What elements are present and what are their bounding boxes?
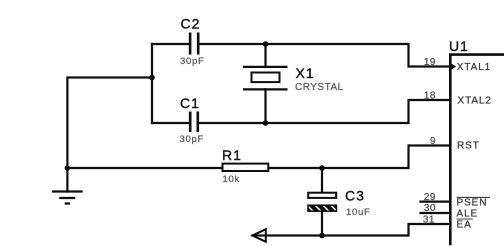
svg-text:XTAL1: XTAL1: [457, 62, 491, 73]
svg-text:19: 19: [424, 57, 436, 68]
svg-text:U1: U1: [449, 38, 469, 54]
svg-text:XTAL2: XTAL2: [458, 96, 492, 107]
svg-text:C2: C2: [181, 16, 201, 32]
svg-text:EA: EA: [457, 219, 472, 230]
svg-text:C3: C3: [345, 188, 365, 204]
svg-text:9: 9: [430, 136, 436, 147]
svg-text:ALE: ALE: [457, 208, 479, 219]
svg-text:30pF: 30pF: [180, 134, 204, 145]
svg-text:10uF: 10uF: [346, 207, 370, 218]
svg-text:31: 31: [423, 214, 435, 225]
svg-text:30pF: 30pF: [180, 56, 204, 67]
svg-text:RST: RST: [457, 141, 480, 152]
svg-text:X1: X1: [296, 65, 315, 81]
svg-text:R1: R1: [222, 147, 242, 163]
svg-text:C1: C1: [180, 95, 200, 111]
svg-text:29: 29: [424, 192, 436, 203]
svg-text:18: 18: [424, 90, 436, 101]
svg-text:CRYSTAL: CRYSTAL: [295, 82, 344, 93]
svg-text:10k: 10k: [223, 174, 240, 185]
svg-text:PSEN: PSEN: [457, 197, 488, 208]
svg-text:30: 30: [424, 203, 436, 214]
